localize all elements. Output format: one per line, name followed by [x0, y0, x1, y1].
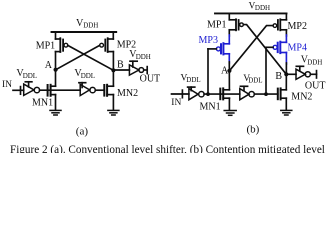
VDDL label 2 (a) [74, 68, 95, 80]
inverter U2b supply bar [240, 86, 247, 90]
wire MN2 source to ground (a) [112, 95, 114, 111]
svg-text:OUT: OUT [305, 81, 326, 92]
wire inverter U1b out to inverter U2b in (b) [204, 93, 240, 95]
transistor MP2 [100, 32, 114, 52]
svg-text:DDH: DDH [136, 53, 151, 61]
svg-text:DDH: DDH [83, 22, 98, 30]
VDDH label output inverter (b) [301, 55, 323, 67]
ground MN2 (a) [108, 110, 119, 115]
wire inverter U2b out to MN2 gate (b) [254, 93, 277, 95]
wire MP2 gate to node A (a) [56, 45, 100, 69]
wire node A to MN1 drain (a) [55, 52, 57, 87]
svg-text:MN2: MN2 [117, 88, 138, 99]
VDDH rail (a) [52, 31, 117, 33]
inverter U1b supply bar [188, 87, 195, 91]
wire MP2 drain to MP4 source (b) [285, 30, 287, 43]
node A (b) [227, 69, 231, 73]
MP2 label (b) [288, 21, 307, 32]
transistor MP1 (b) [229, 13, 243, 30]
VDDH label (b) [249, 0, 270, 12]
IN port tick (b) [181, 90, 183, 98]
wire IN to inverter (a) [13, 89, 24, 91]
svg-text:A: A [221, 66, 229, 77]
junction MP4 gate / MN2 gate (b) [264, 92, 268, 96]
wire OUT (b) [310, 73, 316, 75]
OUT label (a) [140, 74, 161, 85]
wire MP3 gate to MN1 gate (b) [208, 49, 216, 94]
svg-text:IN: IN [171, 98, 181, 108]
svg-text:DDH: DDH [255, 4, 270, 12]
svg-text:B: B [275, 71, 282, 82]
svg-text:MP4: MP4 [288, 43, 307, 54]
svg-text:MP1: MP1 [207, 20, 226, 31]
wire MP2 gate to node A (b) [229, 26, 273, 71]
OUT port tick (a) [146, 67, 148, 74]
transistor MP4 (blue) [273, 42, 286, 53]
inverter U3a supply bar [130, 61, 137, 67]
svg-text:(a): (a) [76, 126, 89, 138]
wire MP1 drain to MP3 source (b) [228, 30, 230, 44]
VDDL label 1 (b) [181, 74, 201, 84]
svg-text:MN1: MN1 [200, 102, 221, 113]
svg-text:OUT: OUT [140, 74, 161, 85]
MN2 label (a) [117, 88, 138, 99]
transistor MN1 [48, 85, 56, 96]
MP2 label (a) [117, 40, 136, 51]
svg-text:MN1: MN1 [32, 97, 53, 108]
inverter U1a supply bar [25, 82, 32, 87]
figure caption [10, 144, 325, 156]
MP1 label (b) [207, 20, 226, 31]
wire MP1 gate to node B (b) [243, 25, 286, 75]
OUT label (b) [305, 81, 326, 92]
MP4 label (b) [288, 43, 307, 54]
IN label (b) [171, 98, 181, 108]
MP1 label (a) [36, 40, 55, 51]
VDDL label 1 (a) [16, 68, 37, 80]
wire MP3 drain to node A (b) [228, 54, 230, 90]
svg-text:Figure 2 (a). Conventional lev: Figure 2 (a). Conventional level shifter… [10, 144, 325, 153]
wire node B to output inverter (a) [113, 69, 129, 71]
inverter U3a [129, 65, 139, 75]
wire OUT (a) [144, 69, 148, 71]
transistor MP3 (blue) [216, 43, 229, 54]
MN2 label (b) [291, 92, 312, 103]
subfigure label (b) [247, 124, 260, 136]
transistor MP2 (b) [273, 13, 286, 30]
inverter U2b [240, 89, 249, 100]
svg-text:A: A [45, 60, 53, 71]
node A (a) [54, 68, 58, 72]
IN port tick (a) [20, 87, 22, 95]
IN label (a) [2, 80, 12, 90]
wire inverter U2a out to MN2 gate (a) [95, 89, 104, 91]
svg-text:DDL: DDL [81, 72, 95, 80]
ground MN1 (a) [50, 110, 61, 115]
svg-text:B: B [117, 60, 124, 71]
MN1 label (b) [200, 102, 221, 113]
wire node B to MN2 drain (a) [112, 52, 114, 87]
junction MP3 gate / MN1 gate (b) [206, 92, 210, 96]
transistor MN2 [104, 85, 113, 96]
wire MN1 source to ground (a) [55, 95, 57, 111]
VDDH label output inverter (a) [129, 49, 151, 61]
svg-text:MP1: MP1 [36, 40, 55, 51]
svg-text:IN: IN [2, 80, 12, 90]
svg-text:MN2: MN2 [291, 92, 312, 103]
MN1 label (a) [32, 97, 53, 108]
transistor MP1 [56, 32, 68, 52]
node B (b) [284, 72, 288, 76]
ground MN1 (b) [224, 111, 236, 116]
MP3 label (b) [199, 35, 218, 46]
inverter U3b [296, 69, 305, 79]
wire node B to output inverter (b) [286, 73, 296, 75]
wire inverter U1a out to inverter U2a in (a) [40, 89, 81, 91]
wire IN to inverter (b) [172, 93, 189, 95]
svg-text:DDH: DDH [307, 58, 322, 66]
VDDH label (a) [76, 18, 98, 30]
svg-text:DDL: DDL [186, 76, 200, 84]
wire MP4 drain to node B (b) [285, 53, 287, 90]
transistor MN2 (b) [278, 88, 287, 99]
inverter U2a supply bar [79, 83, 86, 88]
transistor MN1 (b) [220, 88, 229, 99]
svg-text:MP2: MP2 [288, 21, 307, 32]
node B (a) [111, 68, 115, 72]
VDDH rail (b) [215, 12, 287, 14]
VDDL label 2 (b) [243, 74, 262, 85]
wire MP4 gate to MN2 gate (b) [266, 47, 273, 94]
svg-text:(b): (b) [247, 124, 260, 136]
wire MP1 gate to node B (a) [68, 45, 114, 70]
svg-text:MP3: MP3 [199, 35, 218, 46]
subfigure label (a) [76, 126, 89, 138]
OUT port tick (b) [316, 71, 318, 78]
ground MN2 (b) [281, 110, 292, 115]
inverter U3b supply bar [296, 66, 303, 71]
wire MN2 source to ground (b) [285, 98, 287, 110]
svg-text:DDL: DDL [248, 76, 262, 84]
wire MN1 source to ground (b) [228, 98, 230, 110]
inverter U1b [189, 89, 198, 100]
inverter U2a [80, 84, 89, 95]
inverter U1a [24, 84, 34, 95]
svg-text:DDL: DDL [23, 72, 37, 80]
